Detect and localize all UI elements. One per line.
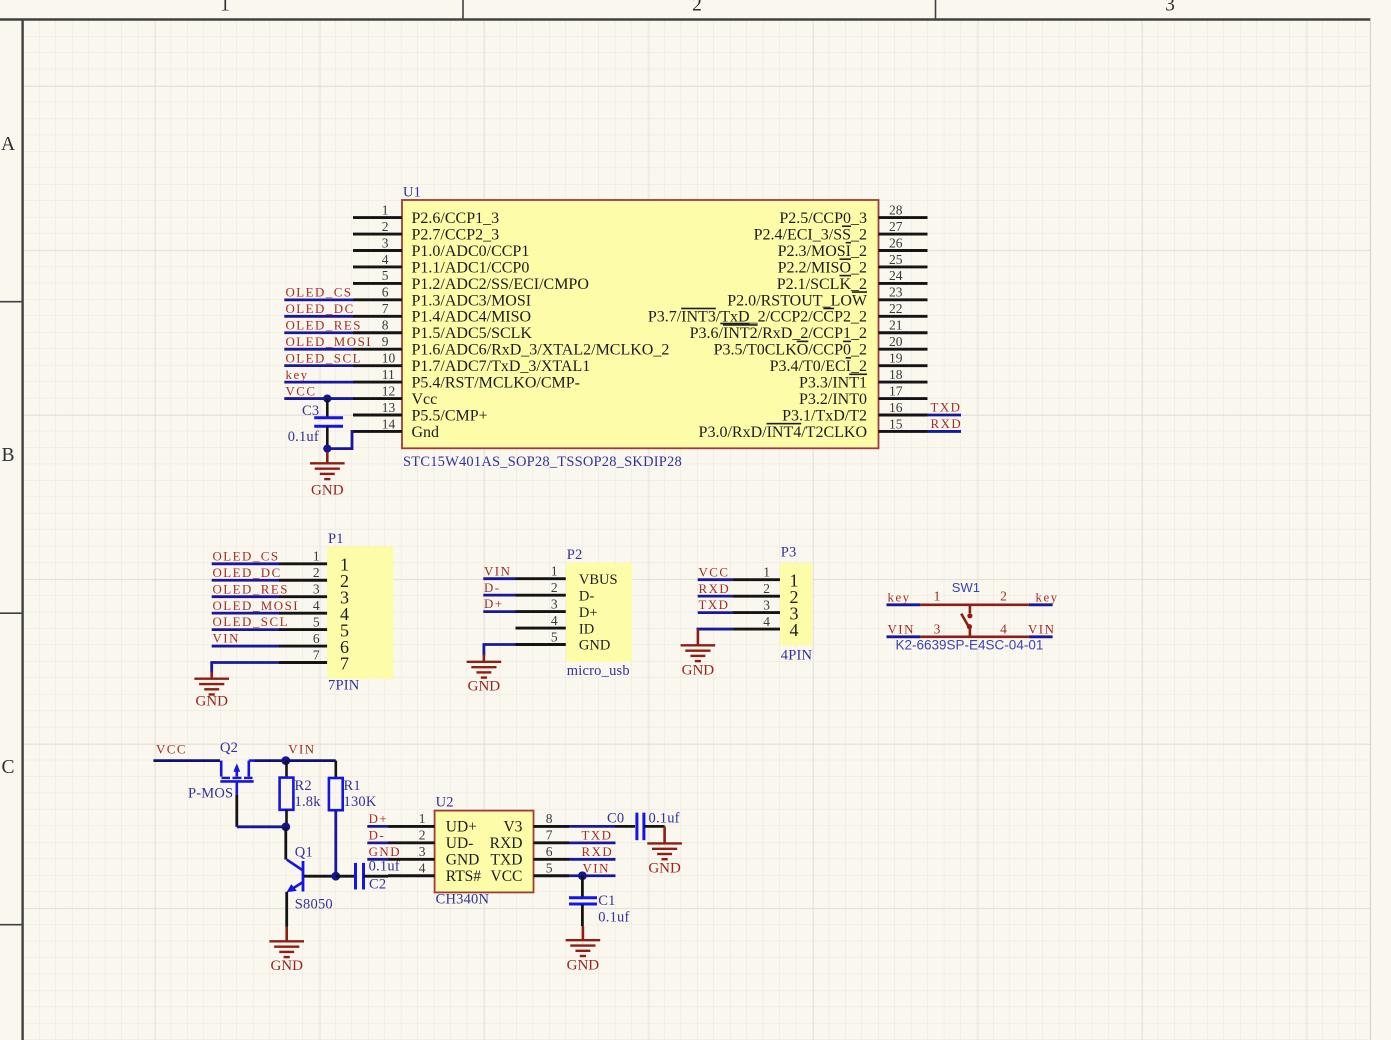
wire P3 pin4 to ground <box>698 629 732 630</box>
svg-text:STC15W401AS_SOP28_TSSOP28_SKDI: STC15W401AS_SOP28_TSSOP28_SKDIP28 <box>403 454 682 470</box>
svg-text:P-MOS: P-MOS <box>188 786 233 802</box>
svg-text:2: 2 <box>692 0 702 16</box>
svg-text:TXD: TXD <box>582 828 613 842</box>
P3 pin 2 <box>732 581 798 607</box>
svg-text:P2.4/ECI_3/SS_2: P2.4/ECI_3/SS_2 <box>754 226 867 243</box>
svg-text:1: 1 <box>934 588 941 603</box>
wire <box>569 825 615 828</box>
svg-text:RTS#: RTS# <box>446 868 481 885</box>
svg-text:P1.3/ADC3/MOSI: P1.3/ADC3/MOSI <box>412 292 532 309</box>
U2 pin 2 UD- <box>388 828 473 852</box>
svg-text:1: 1 <box>763 565 770 580</box>
svg-text:4: 4 <box>551 613 558 628</box>
svg-text:P1: P1 <box>328 531 344 547</box>
U1 pin 24 <box>777 268 928 293</box>
svg-text:VCC: VCC <box>491 868 523 885</box>
svg-text:OLED_DC: OLED_DC <box>286 302 355 316</box>
svg-text:P2.0/RSTOUT_LOW: P2.0/RSTOUT_LOW <box>727 292 868 309</box>
svg-text:OLED_RES: OLED_RES <box>286 319 362 333</box>
capacitor C3 <box>314 399 343 449</box>
U1 pin 14 Gnd <box>353 416 439 441</box>
U2 pin 1 UD+ <box>388 811 477 835</box>
svg-text:K2-6639SP-E4SC-04-01: K2-6639SP-E4SC-04-01 <box>896 638 1044 653</box>
P2 pin 1 VBUS <box>516 564 618 588</box>
wire <box>212 579 279 582</box>
svg-text:26: 26 <box>889 235 903 250</box>
svg-text:25: 25 <box>889 252 903 267</box>
junction gate node <box>281 822 290 831</box>
svg-text:2: 2 <box>551 580 558 595</box>
svg-text:OLED_MOSI: OLED_MOSI <box>286 335 373 349</box>
svg-text:D+: D+ <box>484 597 504 611</box>
transistor Q2 P-MOS <box>220 761 254 795</box>
svg-text:VCC: VCC <box>699 565 730 579</box>
svg-text:P1.4/ADC4/MISO: P1.4/ADC4/MISO <box>412 309 532 326</box>
svg-text:6: 6 <box>546 844 553 859</box>
wire <box>698 578 733 581</box>
svg-text:TXD: TXD <box>931 401 962 415</box>
svg-text:CH340N: CH340N <box>436 892 490 908</box>
U1 pin 22 <box>648 301 928 326</box>
svg-text:1: 1 <box>313 549 320 564</box>
svg-text:P5.4/RST/MCLKO/CMP-: P5.4/RST/MCLKO/CMP- <box>412 375 580 392</box>
svg-text:UD-: UD- <box>446 835 474 852</box>
wire C3 to Gnd pin <box>327 431 354 448</box>
svg-text:OLED_DC: OLED_DC <box>213 566 282 580</box>
U1 pin 12 Vcc <box>353 383 437 408</box>
svg-text:GND: GND <box>311 482 344 498</box>
P1 pin 5 <box>279 614 349 640</box>
resistor R1 <box>329 761 343 811</box>
svg-text:3: 3 <box>551 596 558 611</box>
svg-text:P3.3/INT1: P3.3/INT1 <box>799 375 867 392</box>
svg-text:P3: P3 <box>781 545 797 561</box>
svg-text:P3.6/INT2/RxD_2/CCP1_2: P3.6/INT2/RxD_2/CCP1_2 <box>690 325 867 342</box>
P3 pin 1 <box>732 565 798 591</box>
U1 pin 9 P1.6/ADC6/RxD_3/XTAL2/MCLKO_2 <box>353 334 669 359</box>
svg-text:1: 1 <box>551 564 558 579</box>
P3 pin 4 <box>732 614 798 640</box>
IC U2 body <box>435 811 534 893</box>
wire <box>1029 635 1053 638</box>
svg-text:OLED_RES: OLED_RES <box>213 582 289 596</box>
svg-text:P2.1/SCLK_2: P2.1/SCLK_2 <box>777 276 867 293</box>
U1 pin 15 <box>699 416 928 441</box>
svg-text:GND: GND <box>195 694 228 710</box>
wire gate to R2 node <box>237 825 286 828</box>
wire <box>887 603 921 606</box>
svg-text:Gnd: Gnd <box>412 424 440 441</box>
P1 pin 4 <box>279 598 349 624</box>
svg-text:VIN: VIN <box>583 861 610 875</box>
wire P1 pin7 to ground <box>212 663 279 673</box>
junction base node <box>331 872 340 881</box>
svg-text:OLED_CS: OLED_CS <box>213 549 280 563</box>
svg-text:S8050: S8050 <box>295 897 333 913</box>
svg-text:4PIN: 4PIN <box>781 648 813 664</box>
svg-text:1.8k: 1.8k <box>295 794 322 810</box>
svg-text:Vcc: Vcc <box>412 391 438 408</box>
svg-text:10: 10 <box>382 350 396 365</box>
svg-text:11: 11 <box>382 367 395 382</box>
wire <box>367 841 388 844</box>
svg-text:7: 7 <box>546 828 553 843</box>
wire <box>698 611 733 614</box>
svg-text:5: 5 <box>313 614 320 629</box>
svg-text:18: 18 <box>889 367 903 382</box>
svg-text:Q2: Q2 <box>220 740 238 756</box>
svg-text:VIN: VIN <box>288 743 315 757</box>
svg-text:UD+: UD+ <box>446 819 477 836</box>
svg-text:U2: U2 <box>436 795 454 811</box>
U1 pin 13 P5.5/CMP+ <box>353 400 488 425</box>
capacitor C1 <box>569 876 597 926</box>
P1 pin 2 <box>279 565 349 591</box>
U1 pin 1 P2.6/CCP1_3 <box>353 202 499 227</box>
U1 pin 16 <box>782 400 927 425</box>
svg-text:1: 1 <box>220 0 230 16</box>
U1 pin 5 P1.2/ADC2/SS/ECI/CMPO <box>353 268 589 293</box>
U1 pin 10 P1.7/ADC7/TxD_3/XTAL1 <box>353 350 590 375</box>
svg-text:SW1: SW1 <box>952 580 980 595</box>
svg-text:P5.5/CMP+: P5.5/CMP+ <box>412 407 488 424</box>
wire <box>483 594 515 597</box>
svg-text:GND: GND <box>579 638 610 654</box>
connector P2 body <box>566 563 632 662</box>
svg-text:C2: C2 <box>369 877 386 893</box>
svg-text:2: 2 <box>313 565 320 580</box>
wire <box>284 315 353 318</box>
svg-text:9: 9 <box>382 334 389 349</box>
svg-text:P1.0/ADC0/CCP1: P1.0/ADC0/CCP1 <box>412 243 530 260</box>
U1 pin 2 P2.7/CCP2_3 <box>353 219 499 244</box>
junction on VCC <box>323 394 331 402</box>
wire <box>483 610 515 613</box>
P2 pin 3 D+ <box>516 596 598 620</box>
svg-text:P1.2/ADC2/SS/ECI/CMPO: P1.2/ADC2/SS/ECI/CMPO <box>412 276 589 293</box>
svg-text:D-: D- <box>484 581 501 595</box>
U1 pin 18 <box>799 367 928 392</box>
svg-text:4: 4 <box>763 614 770 629</box>
P2 pin 5 GND <box>516 629 611 653</box>
wire <box>212 628 279 631</box>
ground <box>467 655 502 695</box>
U1 pin 8 P1.5/ADC5/SCLK <box>353 318 532 343</box>
U1 pin 11 P5.4/RST/MCLKO/CMP- <box>353 367 580 392</box>
wire R1 to Q1 base node <box>334 810 337 876</box>
svg-text:P1.6/ADC6/RxD_3/XTAL2/MCLKO_2: P1.6/ADC6/RxD_3/XTAL2/MCLKO_2 <box>412 342 670 359</box>
junction VIN <box>281 756 290 765</box>
svg-text:P3.7/INT3/TxD_2/CCP2/CCP2_2: P3.7/INT3/TxD_2/CCP2/CCP2_2 <box>648 309 867 326</box>
P2 pin 2 D- <box>516 580 595 604</box>
svg-text:1: 1 <box>382 202 389 217</box>
svg-text:16: 16 <box>889 400 903 415</box>
svg-text:U1: U1 <box>403 185 421 201</box>
svg-text:V3: V3 <box>503 819 522 836</box>
switch SW1 <box>920 605 1028 637</box>
svg-text:C3: C3 <box>302 403 319 419</box>
U2 pin 4 RTS# <box>388 861 481 885</box>
wire <box>284 364 353 367</box>
svg-text:P3.1/TxD/T2: P3.1/TxD/T2 <box>782 407 867 424</box>
svg-text:key: key <box>286 368 309 382</box>
svg-text:24: 24 <box>889 268 903 283</box>
U1 pin 4 P1.1/ADC1/CCP0 <box>353 252 529 277</box>
wire <box>284 397 353 400</box>
svg-text:20: 20 <box>889 334 903 349</box>
wire <box>367 825 388 828</box>
svg-text:P1.7/ADC7/TxD_3/XTAL1: P1.7/ADC7/TxD_3/XTAL1 <box>412 358 591 375</box>
wire Q2 gate down <box>235 795 238 827</box>
svg-text:0.1uf: 0.1uf <box>288 429 319 445</box>
resistor R2 <box>280 761 294 827</box>
svg-text:6: 6 <box>382 285 389 300</box>
ground <box>566 926 601 973</box>
svg-text:key: key <box>1036 590 1059 604</box>
svg-text:17: 17 <box>889 383 903 398</box>
wire <box>483 577 515 580</box>
svg-text:1: 1 <box>419 811 426 826</box>
svg-text:GND: GND <box>682 663 715 679</box>
svg-text:28: 28 <box>889 202 903 217</box>
wire <box>212 562 279 565</box>
wire P2 pin5 to ground <box>484 645 516 656</box>
U1 pin 7 P1.4/ADC4/MISO <box>353 301 531 326</box>
svg-text:7: 7 <box>340 653 349 673</box>
svg-text:P3.4/T0/ECI_2: P3.4/T0/ECI_2 <box>770 358 867 375</box>
svg-text:Q1: Q1 <box>295 844 313 860</box>
wire <box>367 858 388 861</box>
svg-text:P3.0/RxD/INT4/T2CLKO: P3.0/RxD/INT4/T2CLKO <box>699 424 867 441</box>
svg-text:GND: GND <box>369 845 401 859</box>
svg-text:P2.6/CCP1_3: P2.6/CCP1_3 <box>412 210 500 227</box>
IC U1 body <box>402 200 879 448</box>
junction on VCC pin <box>578 871 587 880</box>
svg-text:3: 3 <box>1165 0 1175 16</box>
svg-text:GND: GND <box>648 861 681 877</box>
ground <box>194 672 229 710</box>
svg-text:8: 8 <box>382 318 389 333</box>
U2 pin 3 GND <box>388 844 479 868</box>
svg-text:OLED_SCL: OLED_SCL <box>286 351 362 365</box>
U1 pin 17 <box>799 383 928 408</box>
svg-text:3: 3 <box>934 622 941 637</box>
svg-text:VBUS: VBUS <box>579 572 618 588</box>
svg-text:RXD: RXD <box>490 835 523 852</box>
svg-text:4: 4 <box>313 598 320 613</box>
wire <box>212 595 279 598</box>
connector P3 body <box>780 563 812 646</box>
svg-text:5: 5 <box>382 268 389 283</box>
svg-text:C: C <box>1 757 14 778</box>
U2 pin 7 RXD <box>490 828 569 852</box>
svg-text:GND: GND <box>468 679 501 695</box>
svg-text:micro_usb: micro_usb <box>567 663 630 679</box>
P1 pin 1 <box>279 549 349 575</box>
svg-text:2: 2 <box>419 828 426 843</box>
svg-text:OLED_SCL: OLED_SCL <box>213 615 289 629</box>
svg-text:4: 4 <box>1000 622 1007 637</box>
svg-text:23: 23 <box>889 285 903 300</box>
svg-text:P2.3/MOSI_2: P2.3/MOSI_2 <box>778 243 867 260</box>
U2 pin 5 VCC <box>491 861 569 885</box>
svg-text:TXD: TXD <box>699 598 730 612</box>
svg-text:GND: GND <box>270 958 303 974</box>
svg-text:2: 2 <box>382 219 389 234</box>
svg-text:A: A <box>1 134 15 155</box>
wire <box>284 381 353 384</box>
U1 pin 3 P1.0/ADC0/CCP1 <box>353 235 529 260</box>
connector P1 body <box>327 546 393 678</box>
svg-text:C1: C1 <box>598 893 615 909</box>
wire <box>569 841 616 844</box>
junction at C3 bottom <box>323 445 331 453</box>
svg-text:13: 13 <box>382 400 396 415</box>
svg-text:R2: R2 <box>295 778 312 794</box>
svg-text:21: 21 <box>889 318 903 333</box>
svg-text:4: 4 <box>382 252 389 267</box>
wire <box>569 858 616 861</box>
svg-text:ID: ID <box>579 621 594 637</box>
svg-text:P2.5/CCP0_3: P2.5/CCP0_3 <box>779 210 867 227</box>
svg-text:R1: R1 <box>344 778 361 794</box>
svg-text:P2.2/MISO_2: P2.2/MISO_2 <box>778 259 867 276</box>
svg-text:VCC: VCC <box>156 743 187 757</box>
svg-text:RXD: RXD <box>699 582 731 596</box>
svg-text:GND: GND <box>446 852 480 869</box>
svg-text:P1.1/ADC1/CCP0: P1.1/ADC1/CCP0 <box>412 259 530 276</box>
svg-text:14: 14 <box>382 416 396 431</box>
wire VCC to Q2 source <box>153 759 220 762</box>
U1 pin 6 P1.3/ADC3/MOSI <box>353 285 531 310</box>
svg-text:key: key <box>888 590 911 604</box>
transistor Q1 S8050 <box>287 860 304 893</box>
wire Q1 base <box>304 875 336 878</box>
svg-text:P3.2/INT0: P3.2/INT0 <box>799 391 867 408</box>
svg-text:VIN: VIN <box>888 622 915 636</box>
svg-text:27: 27 <box>889 219 903 234</box>
wire <box>284 331 353 334</box>
wire <box>212 645 279 648</box>
U1 pin 20 <box>714 334 928 359</box>
wire <box>698 595 733 598</box>
svg-text:130K: 130K <box>344 794 377 810</box>
svg-text:GND: GND <box>567 957 600 973</box>
svg-text:0.1uf: 0.1uf <box>649 811 680 827</box>
U1 pin 27 <box>754 219 928 244</box>
wire VIN to R1 <box>286 759 336 762</box>
svg-text:D+: D+ <box>369 812 389 826</box>
U1 pin 25 <box>778 252 928 277</box>
U2 pin 8 V3 <box>503 811 569 835</box>
U1 pin 28 <box>779 202 927 227</box>
svg-text:VIN: VIN <box>213 632 240 646</box>
svg-text:3: 3 <box>313 582 320 597</box>
svg-text:P1.5/ADC5/SCLK: P1.5/ADC5/SCLK <box>412 325 533 342</box>
svg-text:5: 5 <box>546 861 553 876</box>
wire <box>284 298 353 301</box>
capacitor C0 <box>615 813 665 841</box>
ground <box>310 452 345 498</box>
svg-text:TXD: TXD <box>491 852 523 869</box>
svg-text:4: 4 <box>790 620 799 640</box>
P3 pin 3 <box>732 597 798 623</box>
svg-text:VCC: VCC <box>286 384 317 398</box>
svg-text:D-: D- <box>579 588 594 604</box>
svg-text:RXD: RXD <box>582 845 614 859</box>
wire <box>928 414 962 417</box>
P1 pin 6 <box>279 631 349 657</box>
ground <box>269 927 304 974</box>
wire <box>928 430 962 433</box>
wire Q2 drain to VIN <box>255 759 286 762</box>
svg-text:D+: D+ <box>579 605 598 621</box>
U1 pin 26 <box>778 235 928 260</box>
svg-text:RXD: RXD <box>931 417 963 431</box>
svg-text:7: 7 <box>382 301 389 316</box>
P2 pin 4 ID <box>516 613 595 637</box>
svg-text:OLED_CS: OLED_CS <box>286 286 353 300</box>
wire <box>1029 603 1053 606</box>
svg-text:15: 15 <box>889 416 903 431</box>
svg-text:P2.7/CCP2_3: P2.7/CCP2_3 <box>412 226 500 243</box>
svg-text:C0: C0 <box>607 811 624 827</box>
wire <box>569 874 616 877</box>
svg-text:3: 3 <box>419 844 426 859</box>
svg-text:6: 6 <box>313 631 320 646</box>
svg-text:VIN: VIN <box>1028 622 1055 636</box>
U1 pin 23 <box>727 285 927 310</box>
U2 pin 6 TXD <box>491 844 569 868</box>
svg-text:2: 2 <box>763 581 770 596</box>
svg-text:5: 5 <box>551 629 558 644</box>
P1 pin 7 <box>279 647 349 673</box>
svg-text:12: 12 <box>382 383 396 398</box>
svg-text:P3.5/T0CLKO/CCP0_2: P3.5/T0CLKO/CCP0_2 <box>714 342 867 359</box>
svg-text:8: 8 <box>546 811 553 826</box>
wire Q1 emitter down <box>285 892 288 927</box>
wire <box>887 635 921 638</box>
svg-text:7PIN: 7PIN <box>328 678 360 694</box>
ground <box>681 629 716 678</box>
ground <box>647 826 682 876</box>
svg-text:D-: D- <box>369 828 386 842</box>
P1 pin 3 <box>279 582 349 608</box>
U1 pin 21 <box>690 318 928 343</box>
svg-text:19: 19 <box>889 350 903 365</box>
svg-text:B: B <box>1 445 14 466</box>
U1 pin 19 <box>770 350 928 375</box>
wire base node to C2 <box>336 875 354 878</box>
svg-text:3: 3 <box>763 597 770 612</box>
svg-text:22: 22 <box>889 301 903 316</box>
wire <box>212 612 279 615</box>
svg-text:0.1uf: 0.1uf <box>598 910 629 926</box>
svg-text:7: 7 <box>313 647 320 662</box>
svg-text:OLED_MOSI: OLED_MOSI <box>213 599 300 613</box>
wire <box>284 348 353 351</box>
wire node down to Q1 collector <box>284 827 287 860</box>
svg-text:4: 4 <box>419 861 426 876</box>
svg-text:P2: P2 <box>567 547 583 563</box>
capacitor C2 <box>356 863 389 890</box>
svg-text:2: 2 <box>1000 588 1007 603</box>
svg-text:VIN: VIN <box>484 564 511 578</box>
svg-text:3: 3 <box>382 235 389 250</box>
